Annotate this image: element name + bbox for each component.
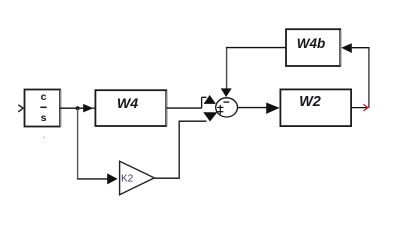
svg-text:K2: K2 [121,173,134,184]
svg-text:W2: W2 [299,94,321,110]
svg-text:W4b: W4b [297,36,326,51]
svg-text:s: s [41,112,47,124]
svg-text:c: c [41,91,47,103]
svg-text:W4: W4 [117,96,138,112]
